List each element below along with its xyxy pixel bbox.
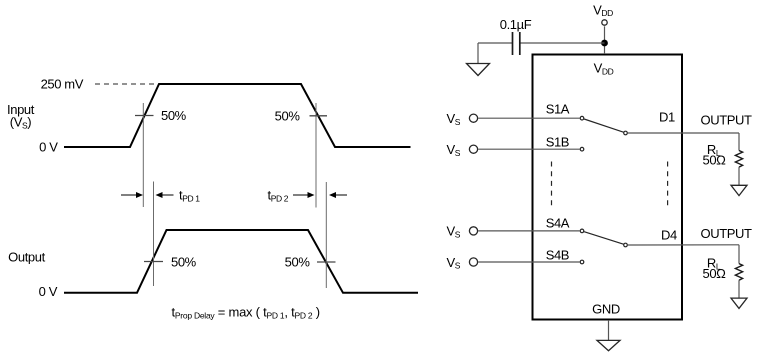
svg-text:50%: 50% bbox=[275, 109, 301, 124]
svg-text:Output: Output bbox=[8, 250, 45, 265]
svg-text:S1B: S1B bbox=[546, 135, 569, 150]
svg-text:S1A: S1A bbox=[546, 101, 570, 116]
svg-text:250 mV: 250 mV bbox=[41, 77, 84, 92]
svg-text:50%: 50% bbox=[285, 255, 311, 270]
svg-text:OUTPUT: OUTPUT bbox=[701, 112, 753, 127]
svg-text:50%: 50% bbox=[171, 255, 197, 270]
svg-text:0.1µF: 0.1µF bbox=[500, 17, 532, 32]
svg-text:50%: 50% bbox=[161, 108, 187, 123]
svg-text:D1: D1 bbox=[659, 109, 675, 124]
svg-text:50Ω: 50Ω bbox=[703, 153, 727, 168]
svg-text:D4: D4 bbox=[661, 228, 677, 243]
svg-text:0 V: 0 V bbox=[39, 140, 58, 155]
svg-text:50Ω: 50Ω bbox=[703, 266, 727, 281]
svg-text:0 V: 0 V bbox=[39, 284, 58, 299]
svg-text:OUTPUT: OUTPUT bbox=[701, 226, 753, 241]
svg-text:(VS): (VS) bbox=[10, 115, 31, 131]
svg-text:S4A: S4A bbox=[546, 216, 570, 231]
svg-text:GND: GND bbox=[592, 302, 620, 317]
svg-text:S4B: S4B bbox=[546, 247, 569, 262]
